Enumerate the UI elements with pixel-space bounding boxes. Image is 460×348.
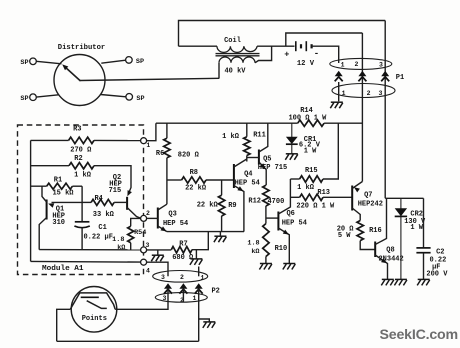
Q6 collector wire <box>278 179 290 214</box>
transistor Q7 body <box>351 186 353 211</box>
resistor R12 <box>263 185 269 206</box>
Q8 emitter arrowhead <box>381 258 387 263</box>
wire SP upper-right to distributor <box>101 60 125 63</box>
Q1 collector wire <box>42 186 47 202</box>
wire R9 top lead <box>221 180 223 195</box>
svg-text:Coil: Coil <box>224 37 241 45</box>
wire bottom return <box>57 340 199 342</box>
resistor R54 <box>128 226 134 243</box>
svg-text:270 Ω: 270 Ω <box>70 146 92 154</box>
resistor R4 <box>91 199 114 205</box>
wire P2 pin2 lower stem <box>182 289 184 302</box>
Q1 emitter wire <box>39 218 46 250</box>
wire R13 left lead <box>290 196 299 198</box>
svg-text:Q6: Q6 <box>286 210 294 218</box>
ground below R7 right <box>190 259 203 265</box>
svg-text:1: 1 <box>341 62 345 69</box>
svg-text:R13: R13 <box>317 189 330 197</box>
svg-text:R9: R9 <box>228 202 236 210</box>
Q7 emitter wire <box>352 182 362 189</box>
svg-text:R12: R12 <box>248 197 261 205</box>
svg-text:SP: SP <box>20 59 28 67</box>
svg-text:1: 1 <box>146 142 150 149</box>
svg-text:P2: P2 <box>211 288 219 296</box>
coil T1 secondary winding <box>219 57 255 63</box>
wire P2 pin3 to points <box>115 289 168 309</box>
svg-text:0.22 µF: 0.22 µF <box>83 234 112 242</box>
svg-text:R16: R16 <box>369 227 382 235</box>
zener diode CR2 <box>400 198 402 208</box>
wire R16 bottom to Q8 base <box>360 241 375 250</box>
transistor Q6 body <box>277 212 279 231</box>
svg-text:Q7: Q7 <box>364 191 372 199</box>
transistor Q2 body <box>126 197 128 210</box>
distributor body circle <box>54 55 105 106</box>
svg-text:HEP 54: HEP 54 <box>163 220 188 228</box>
svg-text:715: 715 <box>109 187 122 195</box>
wire coil primary right to battery + <box>257 45 294 47</box>
Q8 emitter wire <box>375 255 387 279</box>
wire R8 left lead <box>167 179 182 181</box>
wire points left side down <box>57 309 71 341</box>
wire R11 top lead <box>246 123 248 137</box>
wire SP lower-left to distributor <box>36 95 58 97</box>
transistor Q5 body <box>258 150 260 165</box>
svg-text:SP: SP <box>20 95 28 103</box>
svg-text:kΩ: kΩ <box>117 244 125 252</box>
zener diode CR1 <box>291 123 293 137</box>
Q5 emitter arrowhead <box>260 163 266 169</box>
svg-text:R11: R11 <box>253 132 266 140</box>
wire top loop (coil primary to P1 pin3) <box>179 21 386 47</box>
ground below Q6 emitter <box>283 264 296 270</box>
wire node1 riser to rail <box>146 123 156 141</box>
Q4 emitter arrowhead <box>237 186 243 191</box>
wire emitter rail ground stem <box>219 232 221 237</box>
wire R12 bottom to R10/Q6 <box>265 206 267 224</box>
svg-text:3: 3 <box>146 242 150 249</box>
svg-text:1 W: 1 W <box>410 224 423 232</box>
resistor R2 <box>69 163 94 169</box>
wire R8 right to Q4 base <box>206 179 234 181</box>
ground below C2 <box>417 279 430 285</box>
wire 12V rail right part <box>324 122 362 124</box>
svg-text:Module A1: Module A1 <box>42 265 84 273</box>
svg-text:4: 4 <box>146 267 150 274</box>
wire R1 right down to C1 top <box>81 186 83 221</box>
points fixed contact inner bar <box>81 296 99 298</box>
wire R7 right ground stem <box>195 250 197 259</box>
svg-text:1.8: 1.8 <box>112 236 124 244</box>
svg-text:kΩ: kΩ <box>251 248 259 256</box>
Q4 collector wire <box>234 159 247 167</box>
wire node2 to Q3 base <box>146 217 157 219</box>
svg-text:Q5: Q5 <box>263 156 271 164</box>
ground right of node 3 <box>151 255 164 261</box>
wire R9 bottom lead <box>221 216 223 232</box>
resistor R7 <box>171 247 192 253</box>
svg-text:3: 3 <box>378 90 382 97</box>
svg-text:100 Ω 1 W: 100 Ω 1 W <box>288 115 327 123</box>
svg-text:R7: R7 <box>179 241 187 249</box>
wire R54 bottom to node3 rail <box>130 243 132 250</box>
P2 mating arrow pin1 <box>195 283 203 289</box>
node 3 on module edge <box>141 247 147 253</box>
wire R6 top lead <box>166 123 168 138</box>
wire C1 bottom lead <box>81 228 83 250</box>
wire ground tap on P2 pin1 <box>199 319 210 322</box>
svg-text:820 Ω: 820 Ω <box>178 152 200 160</box>
Q1 base arrowhead <box>48 203 54 207</box>
Q5 emitter wire <box>259 162 266 185</box>
Q4 emitter wire <box>234 186 244 232</box>
P1 mating arrow pin1 <box>335 71 343 77</box>
wire coil secondary right up to battery feed <box>255 46 272 63</box>
svg-text:22 kΩ: 22 kΩ <box>185 185 207 193</box>
wire P1 pin2 line <box>361 33 363 182</box>
wire R2 right to Q2 emitter <box>94 166 131 194</box>
svg-text:3: 3 <box>161 274 165 281</box>
wire C2 top lead <box>423 198 425 248</box>
svg-text:Q3: Q3 <box>168 211 176 219</box>
svg-text:15 kΩ: 15 kΩ <box>52 189 74 197</box>
wire P1 pin3 line <box>384 21 386 199</box>
wire 12V rail left part <box>156 122 298 124</box>
node 1 on module edge <box>141 138 147 144</box>
wire node4 to P2 pin3 <box>146 262 168 276</box>
svg-text:Points: Points <box>82 315 107 323</box>
wire R7 right up to emitter rail <box>192 232 208 250</box>
wire Q6 base <box>266 217 279 219</box>
svg-text:C1: C1 <box>98 224 106 232</box>
points breaker roof outline <box>70 293 115 309</box>
svg-text:1: 1 <box>193 295 197 302</box>
wire rotor output <box>80 78 219 80</box>
resistor R16 <box>357 221 363 241</box>
svg-text:R8: R8 <box>190 169 198 177</box>
svg-text:R10: R10 <box>275 245 288 253</box>
wire coil secondary left to rotor line <box>218 63 220 79</box>
svg-text:R15: R15 <box>305 167 318 175</box>
svg-text:SP: SP <box>136 95 144 103</box>
connector P1 upper ellipse <box>330 58 392 69</box>
svg-text:1 kΩ: 1 kΩ <box>74 171 92 179</box>
wire R2 left lead <box>31 165 69 167</box>
svg-text:4700: 4700 <box>267 198 284 206</box>
P1 pin1 lower stem <box>338 82 340 101</box>
Q3 emitter arrowhead <box>161 226 167 231</box>
resistor R14 <box>298 120 324 126</box>
coil core lines <box>216 53 260 55</box>
wire battery negative to P1 pin1 <box>312 46 339 63</box>
svg-text:SP: SP <box>136 58 144 66</box>
ground below Q8 <box>381 279 394 285</box>
resistor R3 <box>69 137 94 143</box>
ground below R10 <box>259 264 272 270</box>
rotor arm of distributor <box>65 67 81 82</box>
P2 mating arrow pin3 <box>164 283 172 289</box>
resistor R9 <box>218 195 224 216</box>
connector P2 lower ellipse <box>155 293 207 303</box>
Q7 emitter arrowhead <box>354 187 360 192</box>
resistor R11 <box>244 137 250 156</box>
svg-text:40 kV: 40 kV <box>224 68 246 76</box>
Q2 collector wire to node 2 <box>127 208 141 219</box>
svg-text:+: + <box>284 50 289 60</box>
Q3 emitter wire <box>158 226 167 232</box>
wire Q5 base <box>247 157 259 159</box>
wire node4 rail <box>31 260 141 263</box>
ground below CR2 <box>394 279 407 285</box>
svg-text:200 V: 200 V <box>426 270 448 278</box>
svg-text:220 Ω 1 W: 220 Ω 1 W <box>296 203 335 211</box>
transistor Q8 body <box>374 242 376 258</box>
points circle <box>71 287 117 333</box>
terminal SP lower-right <box>126 94 133 101</box>
transistor Q1 body <box>46 200 48 220</box>
svg-text:1: 1 <box>342 90 346 97</box>
Q5 collector wire <box>259 123 268 152</box>
transistor Q3 body <box>157 208 159 229</box>
svg-text:1.8: 1.8 <box>247 239 259 247</box>
svg-text:1 kΩ: 1 kΩ <box>297 184 315 192</box>
P1 mating arrow pin3 <box>381 71 389 77</box>
terminal SP lower-left <box>30 94 37 101</box>
wire R3 left lead <box>31 139 69 141</box>
Q7 collector wire <box>352 208 360 221</box>
wire C2 bottom lead <box>423 253 425 280</box>
svg-text:-: - <box>314 49 319 59</box>
svg-text:P1: P1 <box>396 74 404 82</box>
svg-text:R2: R2 <box>74 155 82 163</box>
ground at P2 pin1 tap <box>203 322 216 328</box>
wire node3 ground stem <box>157 250 159 255</box>
svg-text:Distributor: Distributor <box>58 44 105 52</box>
wire R15 left lead <box>290 178 299 180</box>
P1 mating arrow pin2 <box>358 71 366 77</box>
svg-text:R4: R4 <box>94 195 102 203</box>
Q2 base wire right part <box>114 201 127 203</box>
wire battery + riser to P1 pin2 <box>286 33 363 46</box>
svg-text:R54: R54 <box>134 229 146 237</box>
svg-text:HEP 54: HEP 54 <box>235 180 260 188</box>
svg-text:5 W: 5 W <box>338 232 351 240</box>
wire R6 bottom to Q3 collector <box>166 158 168 204</box>
ground on emitter rail <box>214 236 227 242</box>
wire SP upper-left to rotor tip <box>36 61 61 64</box>
resistor R15 <box>300 176 323 182</box>
Q6 emitter arrowhead <box>283 230 289 235</box>
Q2 base wire left part <box>82 201 91 203</box>
connector P1 lower ellipse <box>332 84 395 98</box>
wire node2 to R54 top <box>131 218 141 226</box>
wire node3 to R7 <box>146 249 171 251</box>
wire SP lower-right to distributor <box>101 95 126 97</box>
svg-text:SeekIC.com: SeekIC.com <box>380 327 458 343</box>
module A1 dashed enclosure <box>18 125 144 275</box>
wire R3 to node 1 <box>94 139 141 141</box>
resistor R8 <box>182 177 206 183</box>
svg-text:Q4: Q4 <box>244 171 252 179</box>
svg-text:Q8: Q8 <box>386 247 394 255</box>
resistor R10 <box>263 224 269 257</box>
wire output rail <box>385 197 423 199</box>
wire P2 pin1 to bottom wire <box>198 289 200 341</box>
Q1 base wire from C1 node <box>52 201 83 203</box>
P2 mating arrow pin2 <box>179 283 187 289</box>
coil T1 primary winding <box>217 46 257 52</box>
svg-text:1 W: 1 W <box>304 147 317 155</box>
wire coil primary left lead <box>179 45 218 47</box>
connector P2 upper ellipse <box>153 271 208 283</box>
svg-text:2: 2 <box>367 90 371 97</box>
svg-text:3: 3 <box>379 61 383 68</box>
svg-text:HEP 715: HEP 715 <box>258 164 287 172</box>
wire R15 right riser to rail <box>323 123 338 179</box>
svg-text:HEP 54: HEP 54 <box>282 219 307 227</box>
capacitor C2 <box>416 247 430 249</box>
wire node3 rail left <box>39 249 141 251</box>
Q8 collector wire <box>375 198 386 244</box>
svg-text:R6: R6 <box>156 150 164 158</box>
svg-text:1: 1 <box>201 275 205 282</box>
wire stub above P2 pin1 <box>198 267 200 277</box>
battery B1 12V <box>296 41 312 51</box>
svg-text:33 kΩ: 33 kΩ <box>93 211 115 219</box>
svg-text:2: 2 <box>355 61 359 68</box>
resistor R6 <box>164 138 170 158</box>
svg-text:22 kΩ: 22 kΩ <box>197 201 219 209</box>
wire R11 bottom node <box>246 156 248 162</box>
Q3 collector wire <box>158 204 167 210</box>
svg-text:R1: R1 <box>54 176 62 184</box>
terminal SP upper-right <box>126 57 133 64</box>
svg-text:3: 3 <box>163 295 167 302</box>
transistor Q4 body <box>233 164 235 188</box>
wire R1 left lead <box>31 185 47 187</box>
wire R1 right lead <box>72 185 82 187</box>
Q6 emitter wire <box>278 228 289 263</box>
svg-text:310: 310 <box>52 219 65 227</box>
Q2 emitter arrowhead <box>127 190 131 196</box>
node 4 on module edge <box>141 259 147 265</box>
resistor R13 <box>300 194 323 200</box>
svg-text:2N3442: 2N3442 <box>378 255 403 263</box>
wire module left bus <box>30 140 32 261</box>
resistor R1 <box>47 183 73 189</box>
svg-text:1 kΩ: 1 kΩ <box>222 133 240 141</box>
points moving arm <box>87 301 107 309</box>
svg-text:2: 2 <box>146 210 150 217</box>
svg-text:2: 2 <box>180 274 184 281</box>
svg-text:HEP242: HEP242 <box>358 201 383 209</box>
wire Q3 emitter rail <box>167 231 244 233</box>
ground at P1 pin1 <box>330 102 343 108</box>
node 2 on module edge <box>141 215 147 221</box>
wire R13 right to Q7 base <box>323 196 352 198</box>
terminal SP upper-left <box>30 58 37 65</box>
svg-text:12 V: 12 V <box>297 60 315 68</box>
ground below CR1 <box>285 154 298 160</box>
svg-text:R3: R3 <box>73 126 81 134</box>
capacitor C1 <box>75 221 90 223</box>
wire R10 ground stem <box>265 257 267 264</box>
